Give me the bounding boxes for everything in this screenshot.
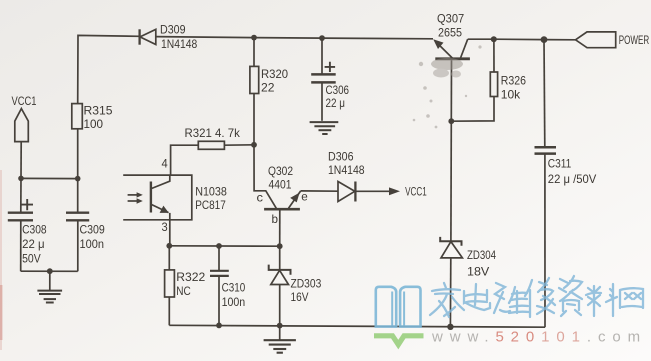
svg-text:C308: C308 xyxy=(22,222,47,236)
node junction dot C306/top rail xyxy=(319,35,325,41)
char jia xyxy=(430,283,464,317)
svg-text:2655: 2655 xyxy=(438,26,462,40)
node junction dot VCC1/C308 xyxy=(18,176,24,182)
char wei xyxy=(494,283,529,313)
resistor R321 xyxy=(171,126,254,175)
wire node row y=246 xyxy=(169,245,279,247)
ground (below C306) xyxy=(310,122,339,134)
svg-text:C310: C310 xyxy=(222,281,246,295)
svg-text:NC: NC xyxy=(176,284,191,298)
svg-text:b: b xyxy=(272,212,279,226)
svg-text:22 μ: 22 μ xyxy=(326,96,346,110)
svg-text:VCC1: VCC1 xyxy=(12,94,37,108)
node junction dot Q307 base/R326 xyxy=(448,118,454,124)
resistor R322 xyxy=(165,246,206,325)
resistor R315 xyxy=(72,104,113,179)
node junction dot ZD304 bottom xyxy=(447,324,453,330)
svg-text:4: 4 xyxy=(162,157,168,171)
wire VCC1 symbol to node xyxy=(20,142,22,179)
char xiu xyxy=(525,278,555,317)
zener diode ZD304 18V xyxy=(440,237,496,327)
op-amp U1 optocoupler N1038 PC817 box xyxy=(123,157,227,234)
resistor R326 xyxy=(451,39,526,121)
svg-text:100n: 100n xyxy=(222,295,246,309)
light arrows of optocoupler xyxy=(128,192,143,204)
char wang xyxy=(620,288,643,308)
node junction dot R315/C309 xyxy=(75,176,81,182)
node POWER connector xyxy=(576,32,650,48)
char dian xyxy=(464,284,490,310)
wire R315 up to top-left corner and right to D309 xyxy=(78,35,140,103)
wire horizontal VCC1-node to R315 column xyxy=(21,177,78,179)
node VCC1 output arrow xyxy=(389,185,427,199)
node junction dot C308/C309 ground tap xyxy=(47,268,53,274)
watermark green ribbon xyxy=(374,336,424,345)
svg-text:R315: R315 xyxy=(84,104,113,118)
wire Q307 base line down to ZD304 xyxy=(450,121,452,241)
diode D309 1N4148 xyxy=(140,23,198,51)
transistor Q307 2655 xyxy=(433,11,470,121)
transistor Q302 4401 xyxy=(254,145,308,246)
node junction dot R326 top xyxy=(491,36,497,42)
svg-text:18V: 18V xyxy=(467,265,489,279)
watermark chinese characters (hand-drawn strokes) xyxy=(430,276,643,317)
svg-text:3: 3 xyxy=(162,220,168,234)
smudge stains near Q307 xyxy=(413,45,482,128)
wire top rail right: Q307 collector to POWER xyxy=(468,38,576,41)
svg-text:10k: 10k xyxy=(501,88,521,102)
diode D306 1N4148 xyxy=(328,150,365,202)
capacitor C310 xyxy=(210,246,245,325)
capacitor C308 (polarized) xyxy=(8,178,47,271)
node junction dot ZD303/ground bottom xyxy=(277,323,283,329)
wire D306 to VCC1 arrow xyxy=(355,190,390,192)
capacitor C309 xyxy=(66,179,105,272)
wire bottom of C308/C309 xyxy=(21,270,78,272)
node junction dot C310 top xyxy=(216,243,222,249)
svg-text:R321 4. 7k: R321 4. 7k xyxy=(185,126,241,140)
wire Q302 emitter to D306 xyxy=(301,190,338,192)
svg-text:100n: 100n xyxy=(80,237,105,251)
svg-text:c: c xyxy=(257,191,264,205)
node junction dot Q302 base/ZD303 xyxy=(277,243,283,249)
svg-text:ZD303: ZD303 xyxy=(291,276,322,290)
watermark book logo xyxy=(376,287,421,327)
svg-text:Q302: Q302 xyxy=(268,164,293,178)
svg-text:VCC1: VCC1 xyxy=(405,185,427,199)
svg-text:22: 22 xyxy=(261,81,275,95)
svg-text:www.520101.com: www.520101.com xyxy=(431,329,647,346)
wire D309 to R320 node xyxy=(156,37,254,38)
svg-text:D306: D306 xyxy=(328,150,354,164)
svg-text:50V: 50V xyxy=(22,252,41,266)
svg-text:Q307: Q307 xyxy=(437,11,464,25)
page edge artifacts xyxy=(0,170,2,350)
ground (bottom center) xyxy=(264,326,296,353)
node junction dot R320/R321/Q302 xyxy=(251,142,257,148)
ground (below C308/C309) xyxy=(37,271,62,302)
svg-text:22 μ: 22 μ xyxy=(22,237,45,251)
svg-text:PC817: PC817 xyxy=(195,198,226,212)
zener diode ZD303 16V xyxy=(269,246,322,325)
svg-text:R320: R320 xyxy=(261,67,288,81)
resistor R320 xyxy=(250,38,288,145)
char zi xyxy=(559,276,582,316)
transistor phototransistor inside PC817 xyxy=(151,175,170,246)
node junction dot R320/top rail xyxy=(251,35,257,41)
capacitor C306 (polarized) xyxy=(311,38,349,121)
svg-text:ZD304: ZD304 xyxy=(467,248,496,262)
wire top rail to C306 node and Q307 emitter xyxy=(254,38,433,39)
svg-text:N1038: N1038 xyxy=(195,185,227,199)
svg-text:C309: C309 xyxy=(80,222,106,236)
char liao xyxy=(586,284,617,316)
svg-text:R326: R326 xyxy=(501,73,526,87)
node junction dot C311 top xyxy=(541,36,548,43)
wire bottom rail xyxy=(169,325,545,327)
svg-text:4401: 4401 xyxy=(269,178,292,192)
node VCC1 (top-left supply label) xyxy=(12,94,37,142)
svg-text:1N4148: 1N4148 xyxy=(161,37,197,51)
svg-text:22 μ /50V: 22 μ /50V xyxy=(548,172,597,186)
svg-text:1N4148: 1N4148 xyxy=(328,163,365,177)
node junction dot C310 bottom xyxy=(216,323,222,329)
svg-text:POWER: POWER xyxy=(619,33,650,47)
svg-text:100: 100 xyxy=(84,117,104,131)
svg-text:C311: C311 xyxy=(548,157,572,171)
capacitor C311 xyxy=(535,40,597,328)
svg-text:D309: D309 xyxy=(160,23,186,37)
svg-text:16V: 16V xyxy=(291,290,309,304)
node junction dot pin3/R322 xyxy=(166,243,172,249)
svg-text:R322: R322 xyxy=(176,270,205,284)
